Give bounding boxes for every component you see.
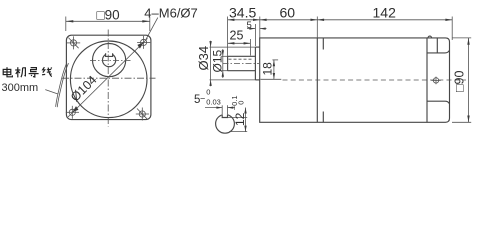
end cap inner vertical — [436, 38, 438, 53]
d104 dimension line BL-TR — [68, 38, 148, 117]
side view body outline — [260, 38, 450, 122]
svg-text:Ø15: Ø15 — [211, 49, 225, 72]
ext lines for d34 — [210, 46, 256, 48]
text 5 -0.03 — [194, 88, 221, 107]
text 12 0/-0.1 rotated — [230, 95, 247, 126]
leader for 4-M6/d7 — [146, 18, 158, 40]
boss d34 side view — [255, 47, 259, 80]
rear end cap left edge — [426, 38, 428, 122]
horizontal centerline of shaft (front view) — [90, 59, 131, 61]
svg-text:0.03: 0.03 — [206, 97, 221, 106]
diagonal centermark through BR hole — [137, 109, 147, 120]
d34 dim line — [209, 41, 211, 86]
mounting hole TL — [67, 36, 80, 49]
detail 5 dim arrows — [205, 107, 235, 109]
glyph dao — [29, 68, 39, 77]
d15 dim line — [222, 49, 224, 78]
svg-text:142: 142 — [373, 4, 397, 20]
svg-text:□90: □90 — [453, 70, 467, 92]
mounting hole BL — [66, 106, 79, 119]
shaft section detail circle — [216, 114, 235, 134]
output shaft circle d15 with keyway notch — [103, 53, 116, 67]
motor centerline — [283, 79, 467, 81]
motor lead wire — [56, 63, 69, 107]
diagonal centermark through TL hole — [68, 38, 78, 49]
output boss circle d34 — [93, 44, 126, 77]
motor front lip top — [322, 38, 324, 50]
dimension 25 — [228, 39, 251, 56]
shaft centerline (side) — [223, 63, 260, 65]
svg-text:5: 5 — [247, 20, 252, 31]
detail 12 dim — [228, 108, 248, 132]
gearbox/motor joint — [316, 38, 318, 122]
glyph xian — [42, 67, 52, 76]
svg-text:25: 25 — [230, 29, 244, 43]
svg-text:60: 60 — [280, 4, 296, 20]
svg-text:Ø34: Ø34 — [196, 46, 211, 71]
horizontal centerline of flange — [62, 77, 156, 79]
dimension 5 (boss) — [247, 24, 267, 46]
front view: square mounting flange — [66, 35, 150, 119]
leader for 300mm — [45, 90, 57, 94]
glyph dian — [3, 67, 12, 77]
mounting hole TR — [137, 36, 150, 49]
right sq90 dim — [452, 38, 471, 122]
detail keyway ext lines — [221, 105, 223, 114]
dim sq90 over front view — [66, 17, 150, 32]
label: motor lead wire (chinese, hand-drawn glyphs) — [3, 67, 52, 77]
gear case circle behind flange — [70, 41, 147, 118]
screw bump on top of cap — [428, 36, 432, 38]
svg-text:18: 18 — [261, 62, 275, 76]
top dimension 60 — [260, 17, 318, 38]
vertical centerline of flange — [107, 30, 109, 127]
glyph ji — [15, 67, 25, 77]
keyway hidden line — [229, 58, 253, 60]
motor front lip bottom — [322, 112, 324, 123]
output shaft side view — [228, 56, 256, 70]
ext lines for d15 — [221, 55, 228, 57]
rear center screw mark — [431, 77, 440, 85]
svg-text:0: 0 — [236, 101, 245, 105]
end cap seam bottom — [427, 101, 449, 103]
svg-text:34.5: 34.5 — [229, 4, 256, 20]
svg-text:□90: □90 — [97, 8, 120, 23]
svg-text:300mm: 300mm — [2, 82, 39, 94]
top dimension 142 — [317, 17, 452, 41]
svg-text:4–M6/Ø7: 4–M6/Ø7 — [144, 6, 197, 21]
svg-text:−: − — [200, 94, 205, 104]
end cap seam top — [427, 51, 449, 53]
svg-text:0: 0 — [206, 88, 210, 97]
top dimension 34.5 — [228, 17, 260, 57]
18 offset dim — [261, 60, 282, 79]
svg-text:12: 12 — [233, 112, 247, 126]
mounting hole BR — [136, 108, 149, 121]
